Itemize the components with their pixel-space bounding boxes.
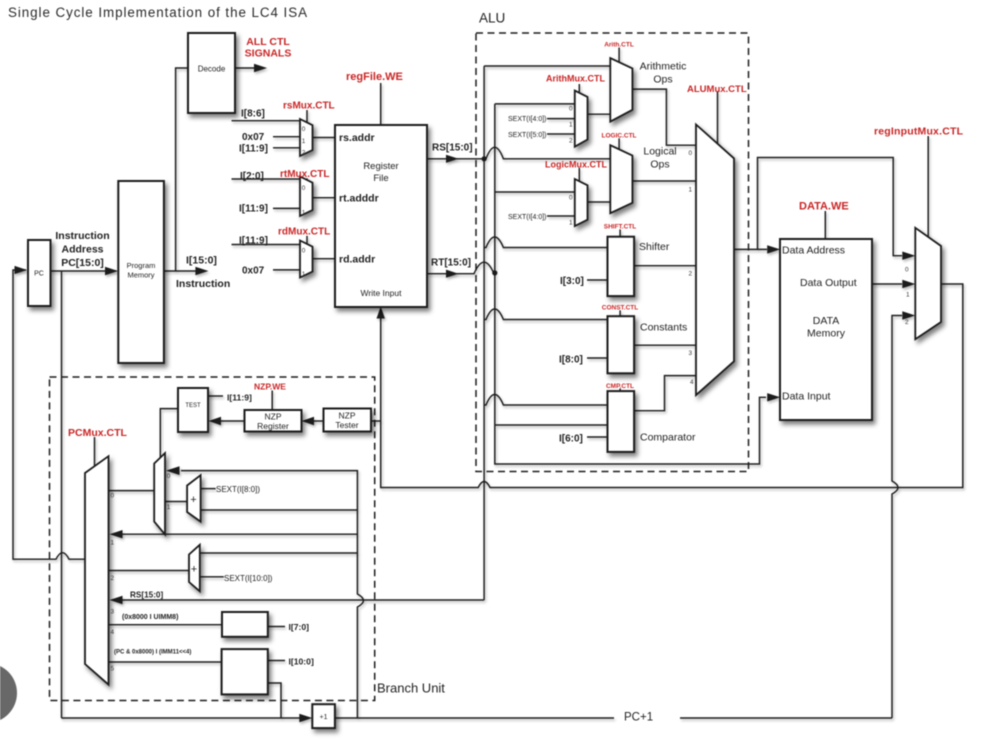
wire PCMux output to PC input — [13, 270, 85, 559]
svg-text:Ops: Ops — [653, 74, 672, 86]
svg-text:2: 2 — [111, 575, 115, 582]
arrowhead Data Address — [767, 245, 780, 253]
svg-text:CONST.CTL: CONST.CTL — [602, 305, 639, 312]
wire box1 input I[7:0] stub — [268, 626, 285, 628]
wire rtMux output — [313, 197, 336, 199]
wire Shifter input I[3:0] — [587, 279, 608, 281]
svg-text:0: 0 — [569, 195, 573, 202]
svg-text:+: + — [191, 564, 197, 576]
svg-text:SEXT(I[5:0]): SEXT(I[5:0]) — [508, 132, 547, 139]
arrowhead NZP mux input 0 — [166, 466, 180, 475]
wire ArithMux input 2 SEXT(I[5:0]) — [547, 133, 575, 135]
svg-text:rsMux.CTL: rsMux.CTL — [283, 101, 335, 112]
arrowhead +1 input — [299, 714, 312, 722]
unit Arithmetic Ops — [610, 58, 632, 122]
wire box2 input I[10:0] stub — [268, 660, 285, 662]
svg-text:Memory: Memory — [127, 271, 154, 280]
wire rdMux input 0 — [232, 244, 301, 246]
svg-text:4: 4 — [111, 629, 115, 636]
svg-text:I[2:0]: I[2:0] — [240, 171, 264, 182]
svg-text:Ops: Ops — [650, 159, 669, 171]
svg-text:SEXT(I[4:0]): SEXT(I[4:0]) — [508, 214, 547, 221]
svg-text:1: 1 — [906, 292, 910, 299]
wire ALUMux output to Data Address — [734, 248, 767, 250]
svg-text:1: 1 — [302, 271, 306, 278]
svg-text:I[11:9]: I[11:9] — [239, 204, 268, 215]
svg-text:Single Cycle Implementation of: Single Cycle Implementation of the LC4 I… — [8, 5, 307, 20]
svg-text:ALUMux.CTL: ALUMux.CTL — [687, 84, 747, 95]
arrowhead PCMux input 1 — [110, 530, 123, 538]
wire Comparator output to ALUMux input 4 — [634, 376, 696, 411]
svg-text:I[11:9]: I[11:9] — [239, 143, 268, 154]
wire adder1 output to NZP mux input 1 — [165, 501, 187, 503]
svg-text:LogicMux.CTL: LogicMux.CTL — [545, 160, 607, 170]
mux ALUMux — [696, 125, 734, 396]
svg-text:Tester: Tester — [335, 420, 358, 430]
svg-text:TEST: TEST — [185, 403, 201, 409]
wire CMP.CTL control — [619, 389, 621, 392]
wire ALUMux.CTL control — [717, 91, 719, 144]
DATA Memory — [780, 239, 872, 420]
wire rtMux input 1 — [273, 207, 300, 209]
svg-text:I[11:9]: I[11:9] — [227, 393, 252, 403]
svg-text:2: 2 — [905, 319, 909, 326]
wire NZP Register to TEST — [220, 420, 245, 422]
wire branch bus to adder1 lower input — [201, 509, 358, 511]
wire branch unit PC+1 bus vertical — [181, 471, 363, 718]
wire RS down to PCMux input 3 — [119, 599, 484, 601]
wire TEST output to NZP select mux — [160, 409, 178, 459]
+1 incrementer box — [312, 704, 335, 728]
svg-text:PC[15:0]: PC[15:0] — [61, 257, 104, 269]
svg-text:rs.addr: rs.addr — [339, 132, 375, 144]
wire rsMux input 0 — [232, 120, 301, 122]
svg-text:SEXT(I[10:0]): SEXT(I[10:0]) — [224, 574, 273, 583]
memory Program Memory — [118, 181, 164, 363]
wire LogicMux input 1 SEXT(I[4:0]) — [547, 215, 575, 217]
NZP Tester box — [324, 409, 372, 432]
svg-text:ALU: ALU — [479, 11, 505, 26]
wire RS hop over RT vertical to Logical Ops — [484, 147, 610, 159]
wire RS vertical bus — [483, 66, 485, 600]
svg-text:LOGIC.CTL: LOGIC.CTL — [601, 133, 636, 140]
wire PC down to +1 — [61, 271, 63, 718]
wire write-back from reginputMux to Write Input and NZP tap — [381, 284, 963, 488]
Comparator box — [608, 391, 635, 452]
wire ArithMux input 1 SEXT(I[4:0]) — [547, 118, 575, 120]
svg-text:I[3:0]: I[3:0] — [560, 276, 584, 287]
svg-text:Instruction: Instruction — [55, 230, 109, 242]
svg-text:PC+1: PC+1 — [624, 712, 653, 724]
svg-text:4: 4 — [690, 379, 694, 386]
wire TEST box I[11:9] stub — [208, 395, 223, 397]
mux rdMux — [300, 241, 313, 278]
wire I[15:0] instruction out — [164, 270, 196, 272]
wire rsMux control — [306, 110, 308, 123]
wire rsMux input 1 — [273, 136, 300, 138]
arrowhead into Program Memory — [105, 267, 118, 275]
wire RT to Comparator input 2 — [495, 424, 608, 426]
wire PCMux input 5 row to box2 — [109, 661, 222, 663]
svg-text:Arithmetic: Arithmetic — [640, 61, 687, 73]
wire LogicMux output to Logical Ops — [588, 201, 611, 203]
wire Constants output to ALUMux input 3 — [634, 344, 696, 346]
wire rdMux control — [306, 236, 308, 244]
svg-text:I[10:0]: I[10:0] — [289, 657, 314, 667]
wire Decode output — [235, 67, 255, 69]
svg-text:2: 2 — [302, 150, 306, 157]
svg-text:DATA.WE: DATA.WE — [799, 201, 849, 213]
wire CONST.CTL control — [619, 310, 621, 316]
arrowhead I[15:0] — [195, 267, 208, 275]
wire rtMux input 0 — [232, 178, 301, 180]
wire RS from Register File into ALU — [427, 158, 484, 160]
svg-text:+: + — [190, 494, 196, 506]
svg-text:0: 0 — [302, 126, 306, 133]
svg-text:Branch Unit: Branch Unit — [377, 681, 445, 696]
wire PC+1 output run with label gap — [335, 717, 892, 719]
wire PC to Program Memory — [51, 270, 117, 272]
arrowhead RT bus — [446, 270, 459, 278]
wire Comparator input I[6:0] — [587, 436, 608, 438]
svg-text:0x07: 0x07 — [242, 132, 265, 143]
mux PCMux — [85, 456, 109, 684]
ALU dashed box — [476, 33, 749, 472]
unit Logical Ops — [610, 145, 632, 213]
svg-text:rdMux.CTL: rdMux.CTL — [278, 227, 330, 238]
wire PC+1 right vertical up to reginputMux input 2 — [892, 316, 902, 719]
svg-text:PCMux.CTL: PCMux.CTL — [68, 427, 128, 439]
wire adder1 input SEXT(I[8:0]) — [201, 488, 216, 490]
wire box2 output drop to +1 input — [268, 683, 281, 718]
NZP Register box — [245, 410, 302, 432]
wire rsMux output — [313, 137, 336, 139]
svg-text:Register: Register — [257, 421, 289, 431]
svg-text:Program: Program — [127, 261, 156, 270]
arrowhead NZP Register to TEST — [209, 417, 222, 425]
mux NZP select — [154, 453, 165, 534]
svg-text:NZP.WE: NZP.WE — [254, 382, 286, 392]
svg-text:0x07: 0x07 — [242, 266, 265, 277]
mux ArithMux — [575, 91, 588, 147]
adder1 SEXT(I[8:0]) — [187, 475, 201, 521]
svg-text:0: 0 — [689, 150, 693, 157]
svg-text:1: 1 — [569, 220, 573, 227]
svg-text:Data Address: Data Address — [782, 245, 845, 257]
svg-text:1: 1 — [111, 540, 115, 547]
adder2 SEXT(I[10:0]) — [189, 545, 200, 592]
svg-text:I[8:0]: I[8:0] — [559, 355, 583, 366]
svg-text:0: 0 — [111, 493, 115, 500]
svg-text:I[7:0]: I[7:0] — [289, 622, 310, 632]
TEST box — [178, 388, 208, 432]
wire Logical Ops output to ALUMux input 1 — [632, 180, 696, 182]
svg-text:Logical: Logical — [643, 146, 676, 158]
arrowhead write input — [377, 307, 385, 319]
svg-text:File: File — [373, 173, 388, 184]
mux LogicMux — [575, 179, 588, 226]
svg-text:Memory: Memory — [807, 328, 846, 340]
svg-text:1: 1 — [302, 210, 306, 217]
wire rsMux input 2 — [273, 147, 300, 149]
svg-text:rd.addr: rd.addr — [339, 254, 375, 266]
wire RS top to Arithmetic Ops — [484, 65, 610, 67]
wire reginputMux.CTL control — [927, 136, 929, 237]
wire Arith.CTL control — [618, 48, 620, 63]
arrowhead reginputMux input 0 — [902, 252, 915, 260]
wire DATA.WE control — [824, 211, 826, 239]
junction RS node — [482, 156, 487, 161]
arrowhead PCMux input 3 — [110, 596, 123, 604]
wire Shifter output to ALUMux input 2 — [634, 265, 696, 267]
svg-text:regInputMux.CTL: regInputMux.CTL — [874, 126, 964, 138]
svg-text:RS[15:0]: RS[15:0] — [130, 591, 163, 600]
wire RT to ArithMux input 0 — [495, 103, 575, 105]
svg-text:Decode: Decode — [198, 65, 226, 74]
wire Decode input from instruction bus — [176, 68, 188, 271]
Branch Unit dashed box — [50, 377, 375, 701]
svg-text:(0x8000 I UIMM8): (0x8000 I UIMM8) — [122, 614, 178, 621]
wire NZP Tester tap — [371, 420, 381, 422]
wire branch bus to adder2 upper input — [200, 552, 358, 554]
svg-text:Data Output: Data Output — [800, 277, 857, 289]
wire RT from Register File with hop over RS vertical — [427, 262, 495, 274]
arrowhead reginputMux input 1 — [902, 280, 915, 288]
wire Data Output to reginputMux input 1 — [872, 283, 902, 285]
wire PCMux input 4 row to box1 — [109, 624, 223, 626]
svg-text:I[15:0]: I[15:0] — [186, 255, 217, 267]
wire SHIFT.CTL control — [619, 229, 621, 236]
svg-text:0: 0 — [569, 106, 573, 113]
svg-text:2: 2 — [569, 138, 573, 145]
svg-text:rt.adddr: rt.adddr — [339, 193, 379, 205]
arrowhead RS bus — [446, 155, 459, 163]
wire ArithMux.CTL control — [578, 84, 580, 93]
mux rtMux — [300, 177, 313, 217]
svg-text:0: 0 — [167, 473, 171, 480]
svg-text:SHIFT.CTL: SHIFT.CTL — [604, 224, 637, 231]
svg-text:PC: PC — [34, 271, 44, 278]
svg-text:RT[15:0]: RT[15:0] — [431, 258, 471, 269]
svg-text:Arith.CTL: Arith.CTL — [604, 42, 634, 49]
Register File — [335, 125, 427, 307]
svg-text:1: 1 — [689, 187, 693, 194]
svg-text:Address: Address — [61, 244, 103, 256]
svg-text:3: 3 — [689, 350, 693, 357]
wire RS to Shifter — [484, 237, 607, 248]
svg-text:regFile.WE: regFile.WE — [346, 71, 403, 83]
wire Arithmetic Ops output to ALUMux input 0 — [632, 89, 696, 145]
arrowhead Data Input — [767, 393, 780, 401]
wire NZP mux output to PCMux input 0 — [109, 490, 155, 492]
arrowhead reginputMux input 2 — [902, 311, 915, 319]
svg-text:CMP.CTL: CMP.CTL — [606, 383, 634, 390]
svg-text:rtMux.CTL: rtMux.CTL — [280, 169, 329, 180]
wire RS to Constants — [484, 309, 607, 320]
wire bottom PC to +1 box — [62, 717, 302, 719]
svg-text:Write Input: Write Input — [361, 288, 403, 298]
svg-text:SEXT(I[8:0]): SEXT(I[8:0]) — [216, 485, 260, 494]
arrowhead into PC — [15, 266, 28, 274]
svg-text:SEXT(I[4:0]): SEXT(I[4:0]) — [508, 116, 547, 123]
svg-text:NZP: NZP — [265, 412, 282, 422]
svg-text:Data Input: Data Input — [782, 391, 831, 403]
svg-text:+1: +1 — [320, 714, 328, 721]
wire rtMux control — [306, 178, 308, 181]
wire NZP.WE control — [271, 391, 273, 411]
svg-text:1: 1 — [302, 138, 306, 145]
wire RS to Comparator — [484, 395, 607, 406]
svg-text:3: 3 — [111, 609, 115, 616]
decoder Decode — [188, 33, 235, 113]
player knob decoration — [0, 663, 17, 723]
wire rdMux input 1 — [273, 269, 300, 271]
svg-text:RS[15:0]: RS[15:0] — [432, 143, 473, 154]
svg-text:0: 0 — [302, 248, 306, 255]
svg-text:I[11:9]: I[11:9] — [239, 236, 268, 247]
svg-text:Constants: Constants — [640, 322, 687, 334]
svg-text:5: 5 — [111, 666, 115, 673]
svg-text:Comparator: Comparator — [640, 432, 696, 444]
wire rdMux output — [313, 258, 336, 260]
arrowhead Decode output — [254, 64, 267, 72]
junction RT node — [492, 270, 497, 275]
wire branch bus to PCMux input 1 — [119, 533, 357, 535]
Constants box — [608, 316, 635, 373]
wire LOGIC.CTL control — [618, 138, 620, 149]
svg-text:NZP: NZP — [339, 411, 356, 421]
svg-text:ALL CTL: ALL CTL — [246, 36, 290, 48]
wire adder2 output to PCMux input 2 — [109, 570, 190, 572]
mux rsMux — [300, 119, 313, 156]
wire PCMux.CTL control — [94, 437, 96, 466]
svg-text:SIGNALS: SIGNALS — [245, 48, 292, 60]
mux reginputMux — [915, 228, 941, 339]
svg-text:Register: Register — [363, 161, 398, 172]
svg-text:Instruction: Instruction — [176, 278, 230, 290]
wire RT to LogicMux input 0 — [495, 191, 575, 193]
svg-text:Shifter: Shifter — [639, 241, 670, 253]
register PC — [28, 240, 51, 306]
wire Constants input I[8:0] — [587, 357, 608, 359]
wire adder2 input SEXT(I[10:0]) — [200, 576, 224, 578]
svg-text:ArithMux.CTL: ArithMux.CTL — [546, 74, 605, 84]
svg-text:1: 1 — [569, 122, 573, 129]
wire LogicMux.CTL control — [578, 168, 580, 182]
svg-text:DATA: DATA — [813, 315, 839, 327]
svg-text:0: 0 — [905, 267, 909, 274]
box2 I[10:0] unit — [222, 649, 268, 694]
wire regFile.WE control — [380, 83, 382, 125]
wire ALU output bypass to reginputMux input 0 — [758, 158, 903, 256]
wire RT vertical bus to Data Input — [495, 104, 766, 464]
Shifter box — [608, 237, 635, 296]
svg-text:I[8:6]: I[8:6] — [241, 109, 265, 120]
svg-text:I[6:0]: I[6:0] — [559, 434, 583, 445]
svg-text:(PC & 0x8000) I (IMM11<<4): (PC & 0x8000) I (IMM11<<4) — [114, 650, 191, 656]
wire ArithMux output to Arithmetic Ops — [588, 113, 611, 115]
arrowhead NZP Tester to NZP Register — [302, 417, 315, 425]
svg-text:1: 1 — [167, 504, 171, 511]
svg-text:0: 0 — [302, 185, 306, 192]
box1 I[7:0] unit — [222, 612, 268, 637]
svg-text:2: 2 — [689, 271, 693, 278]
wire NZP Tester to NZP Register — [312, 420, 324, 422]
